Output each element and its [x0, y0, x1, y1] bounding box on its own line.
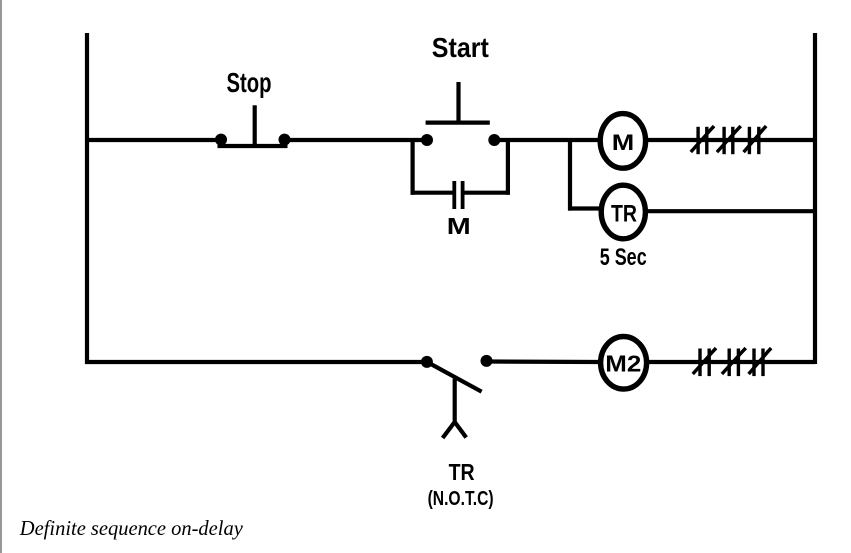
wire: rung 1 Start to coil M [494, 138, 598, 142]
wire: TR contact to coil M2 [487, 359, 600, 364]
svg-text:M: M [447, 213, 471, 239]
svg-text:Definite sequence on-delay: Definite sequence on-delay [19, 517, 244, 540]
svg-text:TR: TR [611, 201, 637, 228]
wire: coil TR to L2 [646, 209, 815, 213]
wire: branch junction down to coil TR [568, 138, 601, 211]
svg-text:M2: M2 [605, 351, 641, 377]
contact TR (N.O.T.C timed contact) [421, 355, 493, 438]
coil TR (timer) [601, 185, 645, 239]
page left edge border [0, 0, 2, 553]
wire: coil M to L2 through overload [646, 138, 815, 142]
pushbutton Start (NO) [421, 82, 500, 146]
overload heater OL1 [691, 126, 766, 154]
wire: rung 1 Stop to Start [285, 138, 428, 142]
wire: rung 2 from L1 to TR contact [85, 360, 427, 364]
contact M (NO holding, parallel branch) [411, 138, 511, 209]
svg-text:TR: TR [449, 459, 475, 485]
coil M [600, 114, 645, 169]
pushbutton Stop (NC) [215, 105, 291, 146]
overload heater OL2 [693, 348, 771, 376]
right power rail L2 [813, 33, 817, 364]
svg-text:M: M [612, 130, 635, 155]
svg-text:Start: Start [432, 32, 489, 63]
svg-text:Stop: Stop [227, 67, 272, 98]
wire: rung 1 from L1 to Stop left contact [85, 138, 221, 142]
svg-text:(N.O.T.C): (N.O.T.C) [428, 487, 494, 510]
wire: coil M2 to L2 through overload [649, 360, 815, 364]
left power rail L1 [85, 33, 89, 364]
coil M2 [601, 337, 647, 390]
svg-text:5 Sec: 5 Sec [600, 244, 647, 271]
